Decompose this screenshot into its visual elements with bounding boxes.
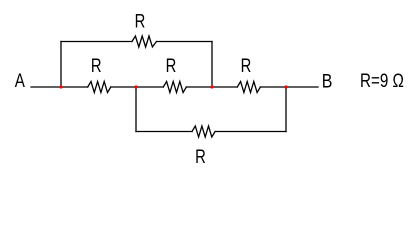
resistor R5 (bottom branch) (192, 126, 215, 137)
wire: top branch left vertical (60, 42, 62, 88)
resistor R4 (series, right on main line) (237, 82, 260, 93)
wire: A lead to resistor R2 left (31, 86, 88, 88)
wire: node D to resistor R4 left (186, 86, 237, 88)
label R (bottom branch resistor) (195, 146, 206, 167)
label R (series resistor left) (91, 55, 102, 76)
wire: top branch horizontal left segment (61, 41, 132, 43)
svg-text:B: B (322, 70, 333, 92)
resistor R2 (series, left on main line) (88, 82, 111, 93)
node junction dot 3 (210, 85, 213, 88)
wire: node E to B lead (260, 86, 318, 88)
resistor R1 (top branch) (132, 36, 157, 47)
node A label (15, 69, 26, 91)
wire: bottom branch left vertical (135, 87, 137, 132)
node B label (322, 70, 333, 92)
svg-text:R=9 Ω: R=9 Ω (360, 69, 404, 91)
svg-text:R: R (135, 11, 146, 32)
wire: top branch horizontal right segment (157, 41, 213, 43)
value label R=9 ohms (360, 69, 404, 91)
label R (series resistor right) (241, 55, 252, 76)
resistor R3 (series, middle on main line) (163, 82, 186, 93)
node junction dot 4 (284, 85, 287, 88)
svg-text:R: R (91, 55, 102, 76)
label R (top branch resistor) (135, 11, 146, 32)
wire: node C to resistor R3 left (111, 86, 164, 88)
svg-text:R: R (241, 55, 252, 76)
svg-text:A: A (15, 69, 26, 91)
svg-text:R: R (166, 55, 177, 76)
wire: bottom branch horizontal right segment (215, 131, 286, 133)
node junction dot 1 (59, 85, 62, 88)
node junction dot 2 (134, 85, 137, 88)
wire: bottom branch right vertical (285, 87, 287, 132)
svg-text:R: R (195, 146, 206, 167)
label R (series resistor middle) (166, 55, 177, 76)
wire: bottom branch horizontal left segment (136, 131, 192, 133)
wire: top branch right vertical (211, 42, 213, 88)
